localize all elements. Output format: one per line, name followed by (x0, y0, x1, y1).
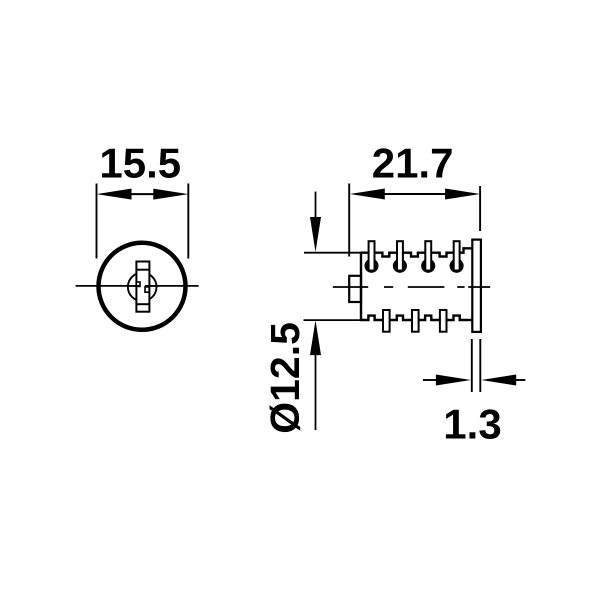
pin chamber circle 4 (450, 259, 464, 273)
side view bottom castellated edge (361, 316, 472, 320)
diameter 12.5 top extension line (304, 252, 361, 254)
keyway plug rectangle (136, 262, 149, 312)
svg-text:1.3: 1.3 (443, 400, 501, 447)
diameter 12.5 down arrowhead (310, 217, 321, 252)
side view flange plate (472, 240, 481, 332)
dimension 15.5 connecting line (130, 193, 155, 195)
pin chamber circle 2 (393, 259, 407, 273)
diameter 12.5 up arrowhead (310, 320, 321, 355)
keyway left notch (136, 282, 140, 286)
dimension 1.3 right arrowhead (481, 375, 516, 386)
pin chamber circle 3 (421, 259, 435, 273)
dimension 21.7 arrow left (350, 189, 385, 200)
front view centerline left segment (76, 285, 140, 287)
keyway centerline left stub (127, 285, 140, 287)
side view cam tab (349, 276, 361, 302)
side view top castellated edge (361, 248, 472, 256)
svg-text:Ø12.5: Ø12.5 (262, 322, 308, 434)
dimension 1.3 left arrow line (423, 379, 438, 381)
front view outer circle (99, 243, 186, 330)
bottom pin 2 (412, 310, 419, 332)
dimension 1.3 right arrow line (515, 379, 526, 381)
bottom pin 1 (383, 310, 390, 332)
diameter 12.5 bottom extension line (304, 319, 362, 321)
svg-text:21.7: 21.7 (372, 139, 454, 186)
dimension 21.7 connecting line (384, 193, 447, 195)
dimension 15.5 left extension line (96, 184, 98, 259)
dimension 21.7 right extension line (479, 186, 481, 231)
top pin 1 (369, 241, 375, 270)
pin chamber circle 1 (364, 259, 378, 273)
side view centerline dash-dot (333, 286, 490, 288)
dimension 1.3 left extension line (471, 339, 473, 392)
top pin 3 (425, 241, 431, 270)
front view centerline right segment (145, 285, 199, 287)
top pin 2 (397, 241, 403, 270)
svg-text:15.5: 15.5 (99, 139, 181, 186)
keyway right notch (145, 287, 149, 292)
dimension 15.5 arrow left (97, 189, 132, 200)
diameter 12.5 down arrow shaft (315, 192, 317, 222)
keyway plug lower divider (136, 303, 149, 305)
dimension 1.3 right extension line (479, 339, 481, 392)
dimension 15.5 arrow right (153, 189, 188, 200)
dimension 1.3 left arrowhead (436, 375, 471, 386)
dimension 21.7 arrow right (445, 189, 480, 200)
diameter 12.5 up arrow shaft (315, 350, 317, 430)
bottom pin 3 (440, 310, 447, 332)
top pin 4 (454, 241, 460, 270)
side view body left edge (360, 252, 362, 322)
dimension 21.7 left extension line (348, 184, 350, 257)
dimension 15.5 right extension line (187, 184, 189, 259)
keyway centerline right stub (145, 285, 158, 287)
keyway plug upper divider (136, 269, 149, 271)
front view inner circle (128, 273, 157, 302)
